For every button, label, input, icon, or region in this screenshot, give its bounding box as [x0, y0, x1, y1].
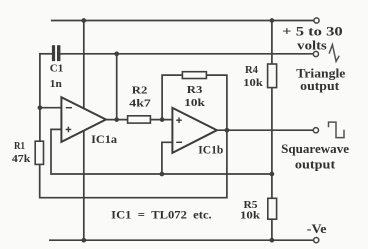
svg-text:output: output [300, 78, 340, 93]
svg-text:+ 5 to 30: + 5 to 30 [282, 24, 343, 39]
svg-text:IC1a: IC1a [91, 134, 117, 146]
svg-text:R4: R4 [245, 64, 258, 76]
svg-text:1n: 1n [50, 79, 62, 90]
svg-text:10k: 10k [240, 210, 261, 222]
svg-text:output: output [295, 156, 336, 171]
svg-text:volts: volts [297, 38, 327, 53]
svg-text:C1: C1 [50, 64, 64, 75]
svg-text:Squarewave: Squarewave [281, 141, 349, 156]
svg-text:47k: 47k [12, 153, 31, 165]
svg-text:10k: 10k [243, 77, 263, 89]
svg-text:10k: 10k [184, 97, 206, 109]
svg-text:4k7: 4k7 [129, 98, 151, 110]
svg-text:R2: R2 [132, 85, 148, 97]
svg-text:-Ve: -Ve [307, 221, 327, 236]
svg-text:IC1 = TL072 etc.: IC1 = TL072 etc. [111, 208, 212, 222]
svg-text:R3: R3 [187, 84, 203, 96]
svg-text:R1: R1 [14, 140, 25, 152]
svg-text:IC1b: IC1b [198, 145, 223, 157]
